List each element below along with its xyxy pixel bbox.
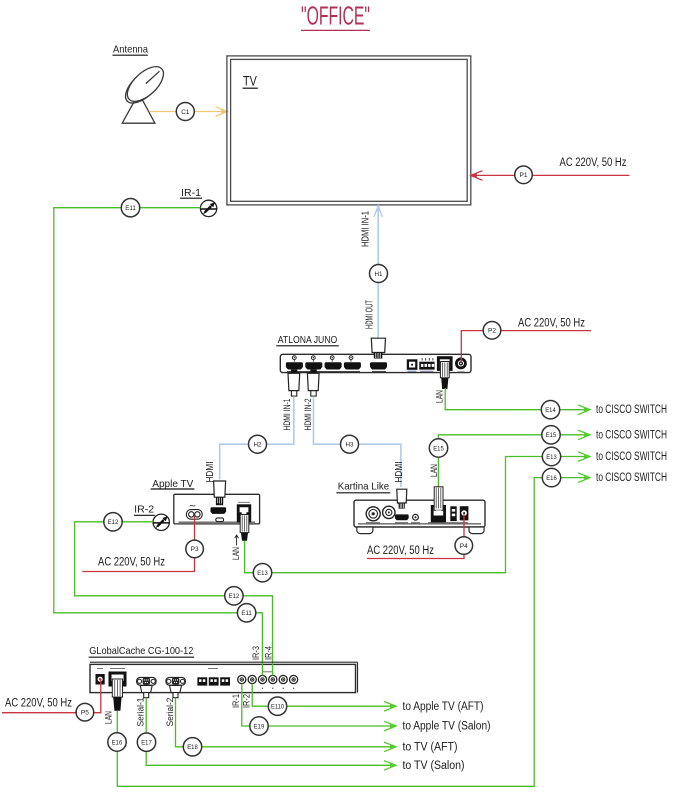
atlona label strip: [287, 370, 360, 372]
node H1: [370, 265, 388, 283]
node P2: [483, 322, 501, 340]
node E15 at arrow: [542, 426, 560, 444]
gc terminal blocks: [197, 669, 230, 686]
label IR-1: [180, 187, 202, 199]
node E11: [121, 199, 139, 217]
svg-text:LAN: LAN: [104, 711, 115, 724]
appletv C7 power inlet: [186, 501, 202, 520]
hdmi cable H1 TV to Atlona: [374, 206, 383, 339]
atlona captive terminal: [419, 358, 434, 371]
node E14: [541, 401, 559, 419]
svg-text:ATLONA JUNO: ATLONA JUNO: [278, 334, 338, 346]
svg-text:IR-1: IR-1: [181, 187, 201, 199]
power wire P4 kartina: [367, 514, 464, 559]
svg-text:"OFFICE": "OFFICE": [301, 3, 370, 31]
svg-text:E14: E14: [545, 407, 556, 414]
wire E17 serial-1 to TV salon: [146, 698, 396, 766]
label Apple TV: [151, 478, 195, 490]
node E17: [137, 733, 155, 751]
appletv RJ45 plug LAN: [240, 515, 249, 541]
svg-text:LAN: LAN: [435, 390, 446, 403]
svg-text:to TV (AFT): to TV (AFT): [403, 742, 458, 754]
device ATLONA JUNO panel: [280, 354, 471, 372]
power wire P2 atlona: [461, 331, 591, 363]
coax arrow C1 to TV: [149, 107, 227, 117]
hdmi cable H2 atlona to appletv: [220, 396, 294, 479]
node E13 near appletv: [253, 564, 271, 582]
appletv usb label mark: [219, 503, 222, 505]
svg-text:H3: H3: [346, 442, 354, 449]
node E11 second: [237, 604, 255, 622]
kartina RJ45 plug LAN from top: [434, 487, 443, 516]
svg-text:P4: P4: [460, 543, 468, 550]
label Kartina Like: [336, 481, 390, 493]
wire E16 globalcache LAN to cisco: [117, 478, 590, 787]
node P3: [186, 540, 204, 558]
svg-text:E16: E16: [112, 739, 123, 746]
svg-text:∼: ∼: [189, 501, 197, 511]
label LAN appletv with arrow: [231, 535, 242, 560]
svg-text:E12: E12: [108, 519, 119, 526]
svg-text:E13: E13: [546, 454, 557, 461]
svg-text:HDMI IN-2: HDMI IN-2: [303, 399, 314, 431]
title OFFICE: [301, 3, 370, 31]
svg-text:LAN: LAN: [429, 464, 440, 477]
device Apple TV box: [174, 494, 260, 524]
svg-text:to CISCO SWITCH: to CISCO SWITCH: [596, 472, 667, 484]
svg-text:LAN: LAN: [231, 547, 242, 560]
atlona RJ45 plug LAN: [440, 362, 449, 390]
wire IR-3 stub inside panel: [261, 664, 263, 676]
svg-text:E18: E18: [187, 744, 198, 751]
IR emitter IR-1: [200, 200, 217, 216]
atlona HDMI ports: [286, 362, 387, 369]
wire E14 atlona LAN to cisco: [445, 388, 590, 410]
device TV: [227, 56, 471, 205]
node P1: [515, 166, 533, 184]
svg-text:TV: TV: [243, 73, 257, 89]
gc RJ45 jack: [109, 669, 127, 687]
svg-text:P1: P1: [520, 172, 528, 179]
wire E13 appletv LAN to cisco: [245, 457, 590, 573]
device Kartina Like box: [354, 500, 485, 533]
svg-text:P5: P5: [81, 710, 89, 717]
svg-text:AC 220V, 50 Hz: AC 220V, 50 Hz: [98, 557, 165, 569]
wire E18 serial-2 to TV aft: [176, 698, 397, 747]
atlona HDMI IN plug 2: [307, 370, 319, 397]
label IR-2: [134, 503, 155, 515]
svg-text:to TV (Salon): to TV (Salon): [403, 760, 465, 772]
svg-text:Antenna: Antenna: [113, 44, 148, 56]
atlona optical port: [407, 359, 418, 371]
kartina spdif: [413, 514, 419, 520]
svg-text:HDMI: HDMI: [394, 462, 405, 483]
node E13 at arrow: [542, 447, 560, 465]
atlona screws: [292, 356, 353, 360]
svg-text:HDMI IN-1: HDMI IN-1: [360, 211, 371, 247]
svg-text:E110: E110: [271, 704, 284, 711]
hdmi cable H3 atlona to kartina: [314, 396, 401, 487]
svg-text:C1: C1: [181, 109, 189, 116]
kartina power jack: [460, 506, 469, 520]
power wire P1 to TV: [471, 171, 630, 181]
svg-text:IR-2: IR-2: [134, 503, 154, 515]
svg-text:to Apple TV (AFT): to Apple TV (AFT): [403, 701, 484, 713]
svg-text:P2: P2: [488, 328, 496, 335]
svg-text:AC 220V, 50 Hz: AC 220V, 50 Hz: [5, 698, 72, 710]
node E12 second: [225, 587, 243, 605]
node P5: [76, 703, 94, 721]
svg-text:P3: P3: [191, 546, 199, 553]
wire E12 green IR-2 to IR-4 jack: [75, 522, 273, 676]
appletv HDMI plug inserted: [214, 481, 226, 505]
gc jack center dots: [241, 679, 294, 681]
appletv micro usb: [216, 518, 224, 522]
svg-text:AC 220V, 50 Hz: AC 220V, 50 Hz: [518, 317, 585, 329]
svg-text:E16: E16: [546, 475, 557, 482]
svg-text:E15: E15: [546, 432, 557, 439]
antenna label: [113, 44, 149, 56]
kartina connector labels strip: [366, 522, 468, 524]
power wire P3 appletv: [82, 516, 194, 572]
svg-text:IR-1: IR-1: [231, 694, 242, 708]
svg-text:to CISCO SWITCH: to CISCO SWITCH: [596, 451, 667, 463]
node E15 near kartina: [429, 439, 447, 457]
svg-text:E19: E19: [254, 723, 265, 730]
kartina antenna jack: [366, 507, 380, 521]
wire E19 IR1 jack to appletv salon: [242, 684, 396, 726]
wire E110 IR2 jack to appletv aft: [252, 684, 396, 707]
antenna dish: [120, 61, 170, 124]
svg-text:E17: E17: [141, 740, 152, 747]
kartina USB: [450, 506, 456, 521]
IR emitter IR-2: [153, 514, 170, 530]
svg-text:HDMI: HDMI: [205, 462, 216, 483]
node E12: [104, 513, 122, 531]
node C1: [176, 103, 194, 121]
svg-text:E13: E13: [257, 570, 268, 577]
atlona RJ45 jack: [437, 356, 453, 371]
appletv HDMI port: [211, 507, 227, 514]
svg-text:Kartina Like: Kartina Like: [338, 481, 390, 493]
atlona power jack: [455, 358, 467, 372]
node E18: [183, 738, 201, 756]
atlona HDMI IN plug 1: [288, 370, 300, 397]
gc IR jacks 1-6: [238, 672, 298, 689]
node H3: [341, 435, 359, 453]
kartina HDMI port: [395, 514, 409, 520]
svg-text:HDMI IN-1: HDMI IN-1: [282, 399, 293, 431]
wire E11 green IR-1 to IR-3 jack: [54, 208, 263, 676]
svg-text:Serial-2: Serial-2: [165, 698, 176, 727]
svg-text:IR-4: IR-4: [264, 646, 275, 660]
node P4: [455, 537, 473, 555]
svg-text:Serial-1: Serial-1: [135, 698, 146, 727]
gc RJ45 plug LAN: [112, 679, 122, 711]
gc serial-1 plug: [140, 686, 152, 698]
svg-text:E15: E15: [433, 445, 444, 452]
wire E15 kartina LAN to cisco: [438, 435, 590, 487]
label GlobalCache CG-100-12: [89, 645, 195, 657]
power wire P5 gc: [2, 679, 101, 713]
svg-text:IR-2: IR-2: [242, 694, 253, 708]
label TV: [243, 73, 258, 89]
svg-text:E11: E11: [241, 610, 252, 617]
node E110: [268, 697, 286, 715]
node E19: [250, 717, 268, 735]
node E16 at arrow: [542, 468, 560, 486]
svg-text:IR-3: IR-3: [251, 646, 262, 660]
svg-text:to CISCO SWITCH: to CISCO SWITCH: [596, 404, 667, 416]
label ATLONA JUNO: [276, 334, 339, 346]
gc serial-2 DB9: [166, 677, 186, 685]
svg-text:H2: H2: [254, 442, 262, 449]
kartina second jack: [383, 506, 395, 518]
appletv RJ45 jack: [237, 502, 251, 522]
svg-text:E11: E11: [125, 205, 136, 212]
svg-text:E12: E12: [229, 593, 240, 600]
kartina RJ45 jack: [431, 505, 446, 522]
svg-text:GLobalCache CG-100-12: GLobalCache CG-100-12: [89, 645, 193, 657]
kartina HDMI plug inserted: [397, 489, 407, 508]
svg-text:AC 220V, 50 Hz: AC 220V, 50 Hz: [560, 157, 627, 169]
svg-text:AC 220V, 50 Hz: AC 220V, 50 Hz: [367, 545, 434, 557]
svg-text:to Apple TV (Salon): to Apple TV (Salon): [403, 721, 491, 733]
device GlobalCache panel: [90, 662, 358, 692]
svg-text:H1: H1: [375, 271, 383, 278]
node E16 near globalcache: [108, 733, 126, 751]
atlona HDMI OUT plug: [371, 338, 385, 358]
svg-text:Apple TV: Apple TV: [152, 478, 193, 490]
svg-text:HDMI OUT: HDMI OUT: [365, 300, 376, 329]
gc serial-1 DB9: [137, 677, 157, 685]
wire IR-4 stub inside panel: [272, 664, 274, 676]
node H2: [249, 435, 267, 453]
gc serial-2 plug: [170, 686, 182, 698]
svg-text:to CISCO SWITCH: to CISCO SWITCH: [596, 429, 667, 441]
gc power jack: [96, 669, 105, 685]
